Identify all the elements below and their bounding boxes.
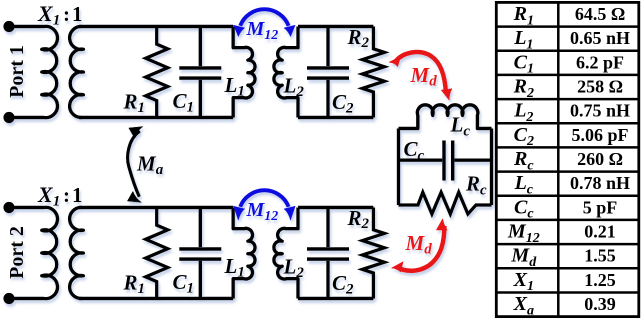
resistor R2 — [362, 208, 384, 299]
svg-text:C1: C1 — [173, 270, 195, 296]
svg-text:Lc: Lc — [450, 113, 471, 140]
svg-text:Xa: Xa — [513, 293, 534, 318]
svg-text:260 Ω: 260 Ω — [577, 149, 623, 169]
svg-text:R1: R1 — [123, 271, 146, 297]
inductor L1 — [233, 208, 255, 299]
capacitor Cc — [399, 141, 492, 181]
wire top rail right box — [298, 25, 373, 28]
svg-text:0.75 nH: 0.75 nH — [570, 101, 630, 121]
resonator right rail wire — [490, 129, 493, 206]
svg-text:L1: L1 — [513, 27, 533, 52]
resistor R1 — [146, 208, 168, 299]
node Port terminal top — [3, 202, 14, 213]
svg-text:L1: L1 — [224, 254, 245, 280]
svg-text:Ma: Ma — [136, 152, 164, 179]
svg-text:Port 2: Port 2 — [6, 226, 28, 279]
svg-text:M12: M12 — [246, 199, 279, 224]
svg-text:C1: C1 — [173, 89, 195, 115]
wire top rail left box — [79, 25, 233, 28]
svg-text:L2: L2 — [283, 255, 305, 281]
capacitor C2 — [307, 208, 349, 299]
svg-text:0.21: 0.21 — [584, 222, 616, 242]
resistor R2 — [362, 27, 384, 118]
svg-text:Lc: Lc — [514, 172, 534, 197]
wire bottom rail left box — [79, 297, 233, 300]
svg-text:0.78 nH: 0.78 nH — [570, 173, 630, 193]
inductor L1 — [233, 27, 255, 118]
capacitor C2 — [307, 27, 349, 118]
svg-text:Md: Md — [410, 63, 438, 90]
parameter table — [496, 2, 639, 316]
capacitor C1 — [179, 208, 221, 299]
coupling arrow M12 — [234, 190, 296, 220]
coupling arrow Ma — [127, 127, 142, 203]
svg-text:R1: R1 — [513, 3, 534, 28]
inductor Lc — [399, 105, 492, 129]
resistor R1 — [146, 27, 168, 118]
svg-text:C2: C2 — [514, 124, 534, 149]
svg-text:R2: R2 — [347, 25, 370, 51]
transformer secondary winding — [70, 26, 84, 117]
inductor L2 — [274, 208, 298, 299]
svg-text:Md: Md — [510, 245, 537, 270]
svg-text:1.25: 1.25 — [584, 270, 616, 290]
svg-text:6.2 pF: 6.2 pF — [576, 52, 624, 72]
svg-text:Rc: Rc — [465, 172, 487, 199]
transformer primary winding — [9, 207, 57, 298]
svg-text:X1: X1 — [513, 269, 534, 294]
node Port terminal bottom — [3, 293, 14, 304]
coupling arrow Md top — [389, 52, 452, 100]
svg-text:C1: C1 — [514, 51, 534, 76]
svg-text:1.55: 1.55 — [584, 246, 616, 266]
wire bottom rail left box — [79, 116, 233, 119]
svg-text:5.06 pF: 5.06 pF — [572, 125, 629, 145]
svg-text:X1:1: X1:1 — [37, 1, 83, 29]
svg-text:X1:1: X1:1 — [37, 182, 83, 210]
svg-text:M12: M12 — [507, 221, 540, 246]
svg-text:258 Ω: 258 Ω — [577, 77, 623, 97]
wire bottom rail right box — [298, 116, 373, 119]
coupling arrow M12 — [234, 9, 296, 36]
svg-text:R2: R2 — [347, 206, 370, 232]
node Port terminal bottom — [3, 112, 14, 123]
transformer primary winding — [9, 26, 57, 117]
svg-text:C2: C2 — [332, 271, 354, 297]
svg-text:M12: M12 — [246, 18, 279, 43]
svg-text:Cc: Cc — [404, 137, 425, 164]
svg-text:R1: R1 — [123, 90, 146, 116]
transformer secondary winding — [70, 207, 84, 298]
svg-text:L2: L2 — [513, 100, 533, 125]
coupling arrow Md bottom — [391, 219, 447, 272]
inductor L2 — [274, 27, 298, 118]
svg-text:0.65 nH: 0.65 nH — [570, 28, 630, 48]
svg-text:Rc: Rc — [513, 148, 534, 173]
svg-text:0.39: 0.39 — [584, 294, 616, 314]
wire top rail left box — [79, 206, 233, 209]
wire bottom rail right box — [298, 297, 373, 300]
svg-text:64.5 Ω: 64.5 Ω — [575, 4, 625, 24]
svg-text:L2: L2 — [283, 74, 305, 100]
svg-text:C2: C2 — [332, 90, 354, 116]
capacitor C1 — [179, 27, 221, 118]
svg-text:Port 1: Port 1 — [6, 45, 28, 98]
resonator left rail wire — [397, 129, 400, 206]
svg-text:L1: L1 — [224, 73, 245, 99]
svg-text:Md: Md — [405, 231, 433, 258]
resistor Rc — [399, 192, 492, 214]
svg-text:Cc: Cc — [514, 196, 534, 221]
node Port terminal top — [3, 21, 14, 32]
wire top rail right box — [298, 206, 373, 209]
svg-text:R2: R2 — [513, 76, 534, 101]
svg-text:5 pF: 5 pF — [583, 197, 618, 217]
